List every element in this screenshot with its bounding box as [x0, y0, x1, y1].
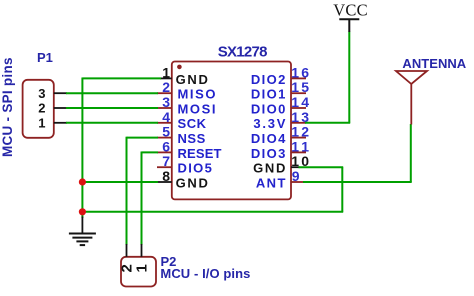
- svg-text:7: 7: [162, 153, 170, 169]
- svg-text:1: 1: [162, 64, 170, 80]
- svg-text:GND: GND: [176, 175, 208, 190]
- P2 pin 1 stub: [141, 244, 143, 257]
- VCC power symbol: [339, 19, 359, 32]
- wire GND from U1 pin1 going left: [82, 77, 161, 79]
- svg-text:1: 1: [133, 264, 150, 272]
- antenna symbol AE1: [396, 71, 427, 125]
- wire RESET vertical down to P2.1: [141, 152, 143, 246]
- wire NSS horizontal U1.5: [127, 137, 159, 139]
- wire NSS vertical down to P2.2: [126, 137, 128, 245]
- svg-text:1: 1: [38, 115, 45, 130]
- svg-text:MCU - I/O pins: MCU - I/O pins: [160, 266, 250, 281]
- wire RESET horizontal U1.6: [142, 151, 159, 153]
- wire ANT vertical up to antenna: [410, 124, 412, 182]
- wire ANT horizontal from U1.9: [303, 181, 412, 183]
- wire GND vertical down at right: [341, 167, 343, 212]
- svg-text:MISO: MISO: [178, 87, 216, 102]
- svg-text:2: 2: [38, 101, 45, 116]
- pin 9 stub ANT: [291, 181, 304, 183]
- junction dot at GND bus and pin8 wire: [79, 178, 86, 185]
- pin 11 stub: [291, 151, 306, 153]
- svg-text:9: 9: [292, 168, 300, 184]
- wire GND from U1 pin10 going right: [299, 166, 344, 168]
- pin 3 stub: [157, 107, 172, 109]
- pin 5 stub: [157, 137, 172, 139]
- svg-text:5: 5: [162, 124, 170, 140]
- pin 14 stub: [291, 107, 306, 109]
- svg-text:2: 2: [162, 79, 170, 95]
- pin 10 stub (GND): [291, 166, 300, 168]
- wire 3.3V vertical up to VCC: [348, 32, 350, 123]
- pin 15 stub: [291, 92, 306, 94]
- svg-text:ANT: ANT: [256, 175, 286, 190]
- svg-text:GND: GND: [253, 161, 285, 176]
- wire GND from U1 pin8 going left: [82, 181, 158, 183]
- connector P2 body: [121, 257, 156, 287]
- pin 2 stub: [157, 92, 172, 94]
- svg-text:MCU - SPI pins: MCU - SPI pins: [0, 58, 15, 158]
- pin 16 stub: [291, 77, 306, 79]
- svg-text:DIO4: DIO4: [251, 131, 286, 146]
- pin 1 stub (GND): [160, 77, 172, 79]
- svg-text:NSS: NSS: [178, 131, 206, 146]
- P1 pin 3 stub: [54, 92, 67, 94]
- svg-text:8: 8: [162, 168, 170, 184]
- wire 3.3V horizontal from U1.13: [305, 122, 350, 124]
- svg-text:DIO0: DIO0: [251, 101, 286, 116]
- P1 pin 2 stub: [54, 107, 67, 109]
- pin 7 stub DIO5 unconnected: [157, 166, 172, 168]
- svg-text:VCC: VCC: [333, 0, 367, 19]
- svg-text:RESET: RESET: [178, 146, 222, 161]
- ground symbol bars: [69, 234, 96, 246]
- wire GND return horizontal to ground bus: [82, 211, 343, 213]
- P1 pin 1 stub: [54, 122, 67, 124]
- ground symbol stub: [81, 217, 83, 233]
- wire GND vertical bus to ground: [81, 78, 83, 219]
- wire MISO: P1.3 to U1.2: [66, 92, 158, 94]
- wire SCK: P1.1 to U1.4: [66, 122, 158, 124]
- op-amp U1 body SX1278: [172, 62, 291, 200]
- svg-text:3.3V: 3.3V: [253, 116, 285, 131]
- junction dot at GND bus and return wire: [79, 208, 86, 215]
- pin 13 stub: [291, 122, 306, 124]
- svg-text:4: 4: [162, 109, 170, 125]
- svg-text:GND: GND: [176, 72, 208, 87]
- connector P1 body: [23, 80, 54, 138]
- svg-text:3: 3: [162, 94, 170, 110]
- P2 pin 2 stub: [126, 244, 128, 257]
- pin 1 marker dot: [177, 65, 182, 70]
- svg-text:3: 3: [38, 86, 45, 101]
- svg-text:ANTENNA: ANTENNA: [402, 56, 466, 71]
- svg-text:DIO3: DIO3: [251, 146, 286, 161]
- pin 8 stub (GND): [157, 181, 172, 183]
- pin 6 stub: [157, 151, 172, 153]
- wire MOSI: P1.2 to U1.3: [66, 107, 158, 109]
- svg-text:SX1278: SX1278: [218, 43, 268, 60]
- pin 12 stub: [291, 137, 306, 139]
- svg-text:SCK: SCK: [178, 116, 207, 131]
- svg-text:6: 6: [162, 138, 170, 154]
- svg-text:MOSI: MOSI: [178, 101, 216, 116]
- pin 4 stub: [157, 122, 172, 124]
- svg-text:P1: P1: [37, 50, 53, 65]
- svg-text:DIO1: DIO1: [251, 87, 286, 102]
- svg-text:DIO5: DIO5: [178, 161, 212, 176]
- svg-text:DIO2: DIO2: [251, 72, 286, 87]
